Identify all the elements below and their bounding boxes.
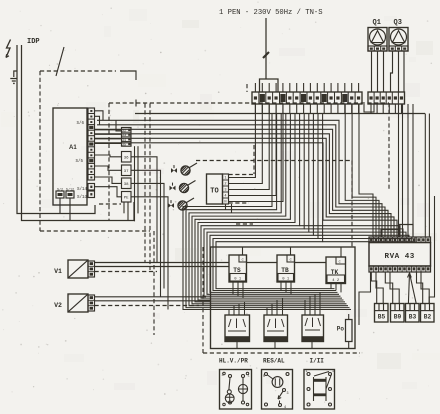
svg-text:HL.V./PR: HL.V./PR [219,358,248,365]
svg-text:36: 36 [124,157,129,161]
svg-text:PE: PE [124,197,129,201]
svg-text:34: 34 [122,139,126,143]
svg-text:S/12: S/12 [66,187,74,192]
svg-text:B5: B5 [378,313,386,320]
svg-text:1 PEN - 230V 50Hz / TN-S: 1 PEN - 230V 50Hz / TN-S [219,9,323,17]
svg-text:S/14: S/14 [77,187,88,192]
svg-text:I/II: I/II [310,358,325,365]
svg-text:1: 1 [332,369,334,373]
svg-text:B3: B3 [409,313,417,320]
svg-text:37: 37 [124,170,129,174]
svg-text:S/13: S/13 [77,195,88,200]
svg-text:1: 1 [247,375,249,379]
svg-text:32: 32 [122,129,126,133]
svg-text:A1: A1 [69,145,77,151]
svg-text:2: 2 [224,183,226,187]
svg-text:Q1: Q1 [373,19,381,27]
svg-text:Po: Po [337,326,345,333]
svg-text:0 1: 0 1 [282,277,290,281]
svg-text:0 1: 0 1 [234,277,242,281]
svg-text:33: 33 [122,134,126,138]
svg-text:TB: TB [281,267,289,274]
svg-text:3: 3 [222,374,224,378]
svg-text:c: c [290,259,292,263]
svg-text:S/5: S/5 [75,159,83,164]
svg-text:4: 4 [224,195,226,199]
svg-text:1: 1 [306,369,308,373]
svg-text:V2: V2 [54,302,62,309]
svg-text:B9: B9 [394,313,402,320]
svg-text:B2: B2 [424,313,432,320]
svg-text:TS: TS [233,267,241,274]
svg-text:c: c [242,259,244,263]
svg-text:V1: V1 [54,268,62,275]
svg-text:35: 35 [122,143,126,147]
svg-text:RVA 43: RVA 43 [385,253,415,261]
svg-text:RES/AL: RES/AL [263,358,285,365]
svg-text:3: 3 [287,392,289,396]
svg-text:c: c [339,261,341,265]
svg-text:5: 5 [263,375,265,379]
svg-text:S/6: S/6 [76,121,84,126]
svg-text:1: 1 [224,177,226,181]
svg-text:S/2: S/2 [57,187,63,192]
svg-text:IDP: IDP [27,38,40,46]
svg-text:3: 3 [224,189,226,193]
svg-text:TO: TO [210,188,218,196]
svg-text:4 2: 4 2 [332,279,340,283]
